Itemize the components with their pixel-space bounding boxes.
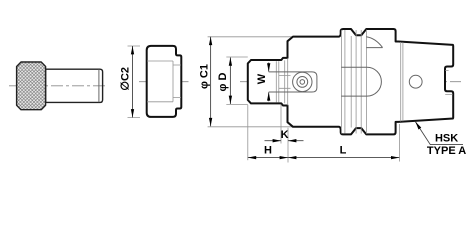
svg-text:φ D: φ D	[217, 73, 229, 92]
flange slot leaf	[366, 37, 382, 48]
shank end notch line	[445, 70, 452, 94]
screw shaft	[46, 69, 103, 102]
internal cavity	[341, 67, 381, 96]
gauge extension line	[287, 128, 289, 163]
nose interior lines	[276, 58, 287, 105]
svg-text:φ C1: φ C1	[198, 64, 210, 89]
dimension K line	[265, 140, 304, 142]
toolholder body outline	[248, 29, 453, 134]
side slot lines	[269, 72, 312, 92]
svg-text:∅C2: ∅C2	[119, 67, 131, 91]
boss circles	[293, 72, 312, 91]
screw shaft chamfer line	[98, 69, 100, 102]
dimension C2 extension ticks	[128, 46, 141, 118]
shank taper lines	[401, 42, 403, 122]
svg-text:HSK: HSK	[435, 132, 458, 144]
cap inner bore lines	[147, 61, 181, 102]
svg-text:W: W	[256, 73, 268, 84]
cap outline	[147, 46, 182, 117]
screw boss	[312, 72, 317, 92]
cap centerline	[139, 81, 189, 83]
dimension line C2	[132, 46, 134, 118]
shank hole	[409, 75, 422, 88]
knurled screw head	[17, 62, 46, 110]
holder centerline	[240, 81, 461, 83]
dimension C1 extension lines	[208, 37, 293, 127]
dimension L line	[288, 157, 399, 159]
dimension line D	[229, 57, 231, 104]
dimension D extension lines	[226, 57, 248, 104]
screw centerline	[9, 85, 108, 87]
H extension line	[247, 105, 249, 160]
svg-text:TYPE A: TYPE A	[427, 145, 466, 157]
HSK leader	[415, 122, 463, 145]
nose interior slot dashes	[279, 76, 291, 89]
svg-text:L: L	[340, 145, 347, 157]
dimension W line	[268, 63, 270, 102]
V-groove projection lines	[351, 30, 361, 134]
svg-text:K: K	[281, 129, 289, 141]
dimension H line	[248, 157, 288, 159]
K extension line	[280, 105, 282, 144]
dimension line C1	[210, 37, 212, 127]
svg-text:H: H	[264, 144, 272, 156]
flange collar verticals	[341, 30, 345, 134]
L extension line	[398, 124, 400, 162]
